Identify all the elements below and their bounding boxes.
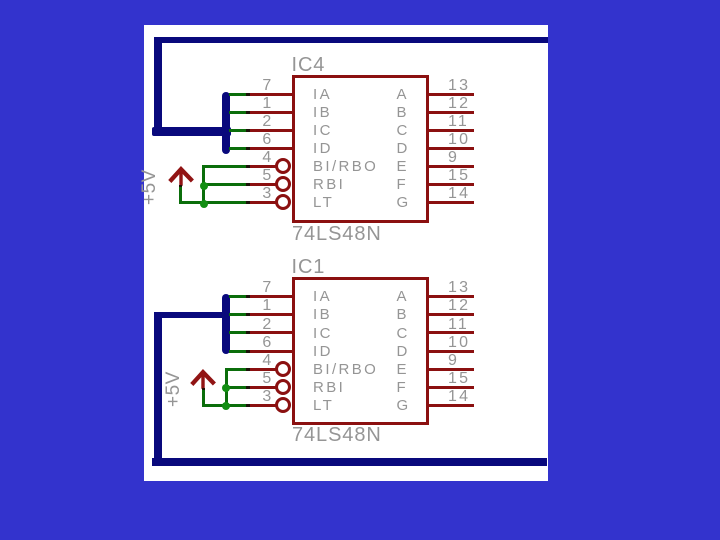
pin number 14 (right) (448, 391, 470, 403)
wire +5V vertical distribution (green) (225, 368, 228, 407)
pin name RBI (313, 179, 345, 191)
pin name E (output) (397, 161, 409, 173)
pin end junction dark blob (246, 295, 250, 298)
pin 10 stub of IC1 right (dark red) (429, 350, 474, 353)
bus bar IC4 (thick navy tap) (222, 92, 230, 154)
pin number 15 (right) (448, 373, 470, 385)
wire IC4 horizontal to bus bar (152, 127, 231, 135)
pin number 14 (right) (448, 188, 470, 200)
wire +5V bottom horizontal (green) (202, 404, 228, 407)
pin number 6 (left) (192, 134, 274, 146)
pin 6 stub of IC4 (dark red) (248, 147, 293, 150)
pin name D (output) (397, 346, 410, 358)
label 74LS48N value (292, 428, 382, 443)
pin 15 stub of IC4 right (dark red) (429, 183, 474, 186)
wire +5V stem lower (green) (179, 186, 182, 204)
pin 12 stub of IC1 right (dark red) (429, 313, 474, 316)
pin name F (output) (397, 179, 409, 191)
bus bar IC1 (thick navy tap) (222, 294, 230, 354)
pin number 3 (left) (192, 188, 274, 200)
wire IC1 left vertical leg (154, 312, 162, 465)
pin number 1 (left) (192, 98, 274, 110)
pin end junction dark blob (246, 368, 250, 371)
pin 3 stub of IC4 (dark red, to bubble) (248, 201, 277, 204)
pin name ID (313, 143, 333, 155)
pin name G (output) (397, 400, 411, 412)
IC body IC1 (74LS48N) (292, 277, 429, 425)
wire net to pin 2 of IC1 (green) (229, 331, 248, 334)
label +5V (rotated) (166, 372, 181, 408)
label IC4 (292, 58, 326, 73)
pin 9 stub of IC1 right (dark red) (429, 368, 474, 371)
pin name ID (313, 346, 333, 358)
inversion bubble on pin 4 of IC1 (275, 361, 291, 377)
pin name F (output) (397, 382, 409, 394)
pin end junction dark blob (246, 386, 250, 389)
pin name B (output) (397, 309, 409, 321)
pin end dark blob on +5V stem (202, 388, 205, 390)
pin end junction dark blob (246, 111, 250, 114)
pin name G (output) (397, 197, 411, 209)
pin end junction dark blob (246, 404, 250, 407)
pin name LT (313, 197, 334, 209)
wire net to pin 1 of IC1 (green) (229, 313, 248, 316)
label 74LS48N value (292, 227, 382, 242)
pin number 7 (left) (192, 80, 274, 92)
inversion bubble on pin 4 of IC4 (275, 158, 291, 174)
wire +5V bottom horizontal (green) (179, 201, 205, 204)
pin end junction dark blob (246, 201, 250, 204)
pin name BI/RBO (313, 161, 378, 173)
pin name E (output) (397, 364, 409, 376)
supply symbol +5V arrow IC4 (dark red chevron + stem) (163, 165, 199, 191)
pin name A (output) (397, 291, 409, 303)
pin name IC (313, 125, 333, 137)
junction dot at pin 5 net (222, 384, 230, 392)
pin number 7 (left) (192, 282, 274, 294)
pin number 1 (left) (192, 300, 274, 312)
pin name IA (313, 89, 332, 101)
supply symbol +5V arrow IC1 (dark red chevron + stem) (185, 368, 221, 394)
wire net to pin 3 of IC1 (green) (225, 404, 248, 407)
pin name D (output) (397, 143, 410, 155)
wire IC1 horizontal from bus bar (154, 312, 230, 318)
pin 10 stub of IC4 right (dark red) (429, 147, 474, 150)
pin name LT (313, 400, 334, 412)
pin 1 stub of IC1 (dark red) (248, 313, 293, 316)
wire net to pin 4 of IC4 (green) (202, 165, 248, 168)
wire +5V stem lower (green) (202, 389, 205, 408)
wire GND bottom bus (thick navy) (152, 458, 548, 466)
pin end junction dark blob (246, 331, 250, 334)
pin number 11 (right) (448, 319, 469, 331)
inversion bubble on pin 5 of IC4 (275, 176, 291, 192)
pin name C (output) (397, 125, 410, 137)
wire net to pin 6 of IC1 (green) (229, 350, 248, 353)
pin number 13 (right) (448, 80, 470, 92)
pin end junction dark blob (246, 350, 250, 353)
IC body IC4 (74LS48N) (292, 75, 429, 223)
pin end junction dark blob (246, 147, 250, 150)
junction dot at pin 3 net (200, 200, 208, 208)
pin 11 stub of IC4 right (dark red) (429, 129, 474, 132)
wire net to pin 5 of IC4 (green) (202, 183, 248, 186)
pin 2 stub of IC1 (dark red) (248, 331, 293, 334)
pin name IA (313, 291, 332, 303)
white schematic panel (144, 25, 548, 481)
pin end dark blob on +5V stem (179, 185, 182, 187)
pin number 12 (right) (448, 98, 470, 110)
junction dot at pin 5 net (200, 182, 208, 190)
wire net to pin 1 of IC4 (green) (229, 111, 248, 114)
pin number 9 (right) (448, 355, 459, 367)
pin number 6 (left) (192, 337, 274, 349)
pin 1 stub of IC4 (dark red) (248, 111, 293, 114)
pin 6 stub of IC1 (dark red) (248, 350, 293, 353)
pin number 5 (left) (192, 170, 274, 182)
inversion bubble on pin 3 of IC4 (275, 194, 291, 210)
pin name BI/RBO (313, 364, 378, 376)
inversion bubble on pin 5 of IC1 (275, 379, 291, 395)
pin name B (output) (397, 107, 409, 119)
wire IC4 left vertical leg (154, 37, 162, 136)
junction dot at pin 3 net (222, 402, 230, 410)
pin number 2 (left) (192, 116, 274, 128)
wire net to pin 7 of IC4 (green) (229, 93, 248, 96)
pin end junction dark blob (246, 165, 250, 168)
pin end junction dark blob (246, 93, 250, 96)
pin end junction dark blob (246, 313, 250, 316)
pin number 9 (right) (448, 152, 459, 164)
pin 12 stub of IC4 right (dark red) (429, 111, 474, 114)
pin 4 stub of IC1 (dark red, to bubble) (248, 368, 277, 371)
pin 7 stub of IC4 (dark red) (248, 93, 293, 96)
pin name IB (313, 309, 332, 321)
pin 13 stub of IC4 right (dark red) (429, 93, 474, 96)
wire net to pin 4 of IC1 (green) (225, 368, 248, 371)
pin number 2 (left) (192, 319, 274, 331)
inversion bubble on pin 3 of IC1 (275, 397, 291, 413)
wire net to pin 3 of IC4 (green) (202, 201, 248, 204)
wire VCC top bus (thick navy) (154, 37, 548, 43)
wire net to pin 5 of IC1 (green) (225, 386, 248, 389)
pin number 4 (left) (192, 152, 274, 164)
pin name A (output) (397, 89, 409, 101)
pin 5 stub of IC1 (dark red, to bubble) (248, 386, 277, 389)
pin 4 stub of IC4 (dark red, to bubble) (248, 165, 277, 168)
wire net to pin 2 of IC4 (green) (229, 129, 248, 132)
pin 15 stub of IC1 right (dark red) (429, 386, 474, 389)
pin name IB (313, 107, 332, 119)
pin number 10 (right) (448, 134, 470, 146)
pin end junction dark blob (246, 183, 250, 186)
pin number 10 (right) (448, 337, 470, 349)
pin name C (output) (397, 328, 410, 340)
pin 9 stub of IC4 right (dark red) (429, 165, 474, 168)
pin 2 stub of IC4 (dark red) (248, 129, 293, 132)
pin number 5 (left) (192, 373, 274, 385)
pin 14 stub of IC4 right (dark red) (429, 201, 474, 204)
wire net to pin 6 of IC4 (green) (229, 147, 248, 150)
pin number 11 (right) (448, 116, 469, 128)
label +5V (rotated) (142, 169, 157, 205)
pin number 15 (right) (448, 170, 470, 182)
pin 7 stub of IC1 (dark red) (248, 295, 293, 298)
pin 14 stub of IC1 right (dark red) (429, 404, 474, 407)
pin 5 stub of IC4 (dark red, to bubble) (248, 183, 277, 186)
pin number 12 (right) (448, 300, 470, 312)
pin number 3 (left) (192, 391, 274, 403)
pin number 4 (left) (192, 355, 274, 367)
label IC1 (292, 260, 326, 275)
pin end junction dark blob (246, 129, 250, 132)
wire +5V vertical distribution (green) (202, 165, 205, 204)
pin 3 stub of IC1 (dark red, to bubble) (248, 404, 277, 407)
pin name IC (313, 328, 333, 340)
wire net to pin 7 of IC1 (green) (229, 295, 248, 298)
pin 11 stub of IC1 right (dark red) (429, 331, 474, 334)
pin name RBI (313, 382, 345, 394)
pin number 13 (right) (448, 282, 470, 294)
pin 13 stub of IC1 right (dark red) (429, 295, 474, 298)
